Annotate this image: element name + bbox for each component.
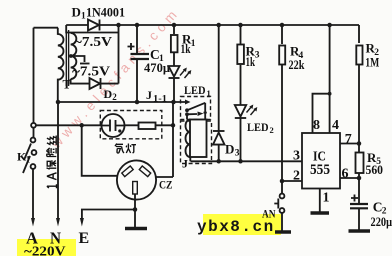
svg-text:220μ: 220μ bbox=[371, 214, 392, 229]
capacitor C2 bbox=[350, 203, 368, 205]
pin 7 stub bbox=[340, 143, 359, 145]
resistor R3 bbox=[240, 25, 242, 44]
resistor R1 bbox=[173, 25, 175, 34]
svg-text:1: 1 bbox=[323, 191, 330, 206]
relay lower contact bbox=[187, 113, 197, 115]
relay contact moving arm bbox=[187, 103, 205, 111]
neon lamp dashed box bbox=[100, 111, 162, 139]
relay contact dashed box bbox=[181, 97, 211, 120]
wire: mains A-line top horizontal bbox=[34, 27, 59, 29]
A arrow bbox=[31, 218, 35, 227]
relay arm pivot lead bbox=[204, 103, 206, 120]
CZ slot upper-right bbox=[139, 166, 150, 177]
svg-text:~7.5V: ~7.5V bbox=[74, 35, 112, 50]
relay coil bbox=[190, 120, 207, 158]
svg-text:CZ: CZ bbox=[159, 178, 173, 192]
svg-text:22k: 22k bbox=[289, 57, 306, 72]
yellow highlight behind ybx8.cn bbox=[203, 214, 281, 235]
svg-text:D: D bbox=[72, 5, 81, 20]
CZ earth lead bbox=[134, 194, 136, 228]
plus sign C2 bbox=[351, 195, 358, 202]
svg-text:3: 3 bbox=[293, 149, 300, 164]
transformer secondary winding with center tap bbox=[71, 33, 77, 79]
svg-text:3: 3 bbox=[235, 149, 240, 159]
ground bar AN bbox=[275, 230, 291, 234]
ground bar pin1 bbox=[311, 211, 330, 215]
wire: secondary box bottom bbox=[71, 79, 119, 84]
Vcc riser to rail bbox=[329, 25, 331, 94]
diode D3 bbox=[213, 130, 225, 132]
svg-text:E: E bbox=[79, 230, 90, 247]
label 1A fuse (1A保险丝) vertical bbox=[47, 136, 57, 189]
svg-text:1-1: 1-1 bbox=[153, 95, 167, 105]
wire A bottom bbox=[32, 169, 34, 219]
E wire bbox=[82, 210, 135, 220]
svg-text:470μ: 470μ bbox=[144, 60, 171, 75]
svg-text:1N4001: 1N4001 bbox=[86, 5, 125, 20]
label neon 氖灯 (drawn strokes) bbox=[115, 144, 136, 154]
neon lamp bbox=[102, 114, 125, 137]
top +V rail bbox=[66, 24, 359, 26]
svg-text:D: D bbox=[225, 142, 234, 157]
resistor R2 bbox=[358, 25, 360, 43]
diode D2 bbox=[90, 78, 101, 89]
svg-text:555: 555 bbox=[310, 162, 330, 178]
LED2 bbox=[235, 105, 246, 117]
wire: secondary box top bbox=[66, 25, 118, 33]
wire: rectifier junction vertical bbox=[118, 25, 120, 84]
svg-text:~7.5V: ~7.5V bbox=[72, 65, 110, 80]
svg-text:3: 3 bbox=[255, 51, 260, 61]
svg-text:LED: LED bbox=[247, 122, 269, 134]
svg-text:LED: LED bbox=[184, 85, 206, 97]
relay contact fixed arrow bbox=[185, 100, 191, 105]
CZ socket right lead bbox=[156, 176, 173, 178]
svg-text:1M: 1M bbox=[365, 55, 379, 70]
svg-text:D: D bbox=[104, 87, 113, 101]
svg-text:1: 1 bbox=[26, 155, 31, 165]
plus sign C1 bbox=[128, 43, 135, 50]
neon series resistor bbox=[139, 123, 156, 130]
neon branch wires bbox=[36, 124, 102, 126]
N rail horizontal bbox=[58, 101, 186, 103]
E arrow bbox=[80, 218, 84, 227]
svg-text:6: 6 bbox=[342, 167, 349, 182]
LED2 arrows bbox=[247, 106, 257, 115]
relay coil dashed box J bbox=[181, 121, 212, 164]
svg-text:~220V: ~220V bbox=[24, 245, 66, 256]
svg-text:1: 1 bbox=[191, 39, 196, 49]
output rail pin3 bbox=[191, 160, 303, 162]
svg-text:4: 4 bbox=[332, 118, 339, 133]
wire: mains A-line vertical bbox=[33, 28, 35, 123]
LED1 arrows bbox=[180, 69, 190, 78]
pin 6 stub bbox=[340, 177, 359, 179]
svg-text:2: 2 bbox=[293, 169, 300, 184]
pin 8 stub bbox=[313, 94, 330, 133]
svg-text:J: J bbox=[182, 157, 188, 171]
node: center tap stub bbox=[69, 54, 73, 58]
CZ slot bottom bbox=[133, 182, 138, 195]
svg-text:2: 2 bbox=[270, 125, 274, 135]
LED1 bbox=[169, 66, 180, 77]
diode D3 vertical line from top rail bbox=[218, 25, 220, 131]
watermark www.elecfans.com bbox=[48, 4, 183, 151]
wire N bottom bbox=[57, 102, 59, 219]
svg-text:1k: 1k bbox=[246, 54, 256, 69]
coil bottom lead bbox=[189, 157, 191, 161]
svg-text:J: J bbox=[146, 88, 152, 102]
ground bar C2 bbox=[349, 229, 371, 233]
junction dot rectifier top bbox=[116, 23, 121, 28]
diode D1 bbox=[88, 20, 99, 31]
CZ slot upper-left bbox=[122, 166, 133, 177]
wire: vertical to contact/N rail bbox=[172, 102, 174, 177]
pin 1 stub bbox=[319, 189, 321, 213]
earth bar under CZ bbox=[125, 227, 147, 231]
IC 555 box bbox=[302, 133, 340, 189]
svg-text:7: 7 bbox=[345, 132, 352, 147]
pin 4 stub bbox=[329, 94, 331, 133]
switch K1 bbox=[31, 123, 36, 128]
svg-text:8: 8 bbox=[313, 118, 320, 133]
pin 2 stub bbox=[282, 180, 302, 182]
yellow highlight behind ~220V bbox=[17, 239, 76, 256]
wire from lower contact into coil bbox=[186, 114, 188, 119]
svg-text:ybx8.cn: ybx8.cn bbox=[197, 218, 275, 236]
CZ socket left lead bbox=[82, 125, 117, 176]
svg-text:2: 2 bbox=[112, 92, 117, 102]
resistor R5 bbox=[356, 153, 364, 174]
svg-text:1k: 1k bbox=[181, 41, 192, 56]
capacitor C1 bbox=[136, 25, 138, 54]
push button AN bbox=[281, 181, 283, 194]
transformer core bbox=[66, 30, 68, 86]
svg-text:560: 560 bbox=[366, 162, 384, 177]
CZ socket circle bbox=[117, 160, 156, 199]
resistor R4 bbox=[281, 25, 283, 44]
transformer T primary winding bbox=[58, 28, 64, 102]
N arrow bbox=[56, 218, 60, 227]
